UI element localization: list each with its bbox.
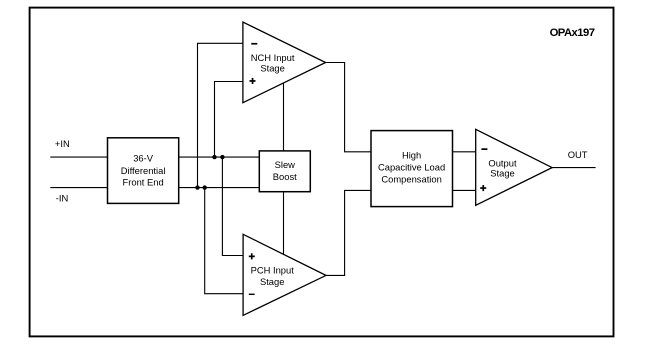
wire OUT lead bbox=[552, 167, 596, 169]
wire -IN lead bbox=[50, 187, 107, 189]
svg-text:High: High bbox=[402, 150, 421, 161]
svg-text:Differential: Differential bbox=[121, 165, 166, 176]
svg-text:Stage: Stage bbox=[260, 63, 285, 74]
wire NCH minus branch bbox=[198, 43, 243, 187]
svg-text:+IN: +IN bbox=[55, 138, 70, 149]
block Slew Boost bbox=[259, 151, 310, 192]
amplifier PCH Input Stage bbox=[243, 234, 326, 315]
svg-text:36-V: 36-V bbox=[133, 153, 154, 164]
svg-text:OPAx197: OPAx197 bbox=[550, 27, 595, 39]
svg-text:Stage: Stage bbox=[490, 168, 515, 179]
wire compensation to Output Stage minus bbox=[453, 151, 476, 153]
wire top rail (+IN path to Slew Boost) bbox=[179, 156, 260, 158]
block U1 36-V Differential Front End bbox=[108, 138, 179, 204]
svg-text:Slew: Slew bbox=[275, 159, 296, 170]
wire Slew Boost to NCH bbox=[283, 83, 285, 151]
svg-text:OUT: OUT bbox=[568, 149, 588, 160]
junction dot bottom rail / PCH minus bbox=[203, 185, 207, 189]
wire PCH plus branch bbox=[222, 157, 243, 255]
svg-text:Boost: Boost bbox=[273, 171, 297, 182]
svg-text:PCH Input: PCH Input bbox=[251, 265, 295, 276]
block High Capacitive Load Compensation bbox=[371, 131, 453, 207]
wire PCH minus branch bbox=[205, 188, 243, 294]
amplifier Output Stage bbox=[476, 129, 552, 205]
wire NCH output to compensation bbox=[326, 63, 371, 152]
svg-text:-IN: -IN bbox=[56, 192, 69, 203]
junction dot bottom rail / NCH minus bbox=[195, 185, 199, 189]
wire PCH output to compensation bbox=[326, 190, 371, 275]
amplifier NCH Input Stage bbox=[243, 22, 326, 103]
junction dot top rail / PCH plus bbox=[220, 155, 224, 159]
junction dot top rail / NCH plus bbox=[212, 155, 216, 159]
svg-text:Stage: Stage bbox=[260, 276, 285, 287]
svg-text:Front End: Front End bbox=[123, 177, 164, 188]
wire compensation to Output Stage plus bbox=[453, 189, 476, 191]
svg-text:Capacitive Load: Capacitive Load bbox=[378, 162, 445, 173]
wire bottom rail (-IN path to Slew Boost) bbox=[179, 187, 260, 189]
svg-text:Compensation: Compensation bbox=[381, 174, 441, 185]
wire NCH plus branch bbox=[215, 82, 243, 158]
wire Slew Boost to PCH bbox=[283, 192, 285, 255]
wire +IN lead bbox=[50, 156, 107, 158]
